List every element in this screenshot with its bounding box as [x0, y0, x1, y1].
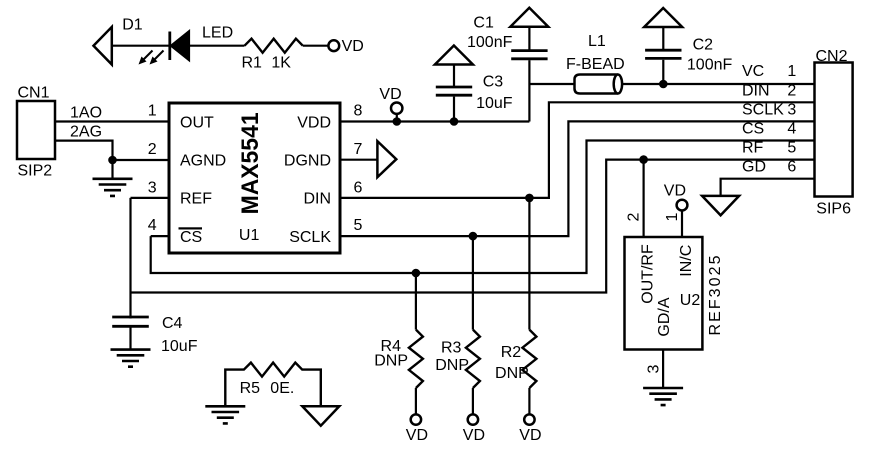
svg-text:SCLK: SCLK	[742, 101, 784, 118]
wire	[189, 45, 245, 47]
capacitor C1	[528, 60, 530, 121]
svg-text:1: 1	[148, 103, 157, 120]
terminal VD (R2)	[524, 414, 534, 424]
wire U2 pin2 to RF net	[642, 160, 644, 237]
svg-text:2: 2	[787, 82, 796, 99]
svg-text:AGND: AGND	[180, 153, 226, 170]
svg-text:C1: C1	[473, 14, 494, 31]
svg-text:6: 6	[787, 159, 796, 176]
wire DIN net	[340, 102, 815, 198]
svg-text:2: 2	[626, 212, 643, 221]
svg-text:4: 4	[787, 121, 796, 138]
svg-text:CN1: CN1	[18, 85, 50, 102]
svg-text:10uF: 10uF	[161, 338, 198, 355]
wire REF run	[131, 160, 815, 293]
resistor R3 (DNP)	[472, 236, 474, 330]
svg-text:VD: VD	[342, 38, 364, 55]
svg-text:SIP6: SIP6	[816, 201, 851, 218]
capacitor C2	[662, 60, 664, 84]
svg-text:100nF: 100nF	[687, 57, 733, 74]
svg-text:MAX5541: MAX5541	[237, 112, 264, 214]
resistor R5	[225, 363, 320, 407]
svg-text:OUT/RF: OUT/RF	[640, 244, 657, 304]
svg-text:GD: GD	[742, 159, 766, 176]
wire	[303, 45, 329, 47]
junction	[469, 232, 478, 241]
ground (R5 left)	[205, 406, 245, 423]
svg-text:VD: VD	[664, 183, 686, 200]
terminal VD (R1)	[328, 40, 339, 51]
connector CN2	[815, 63, 853, 197]
resistor R1	[245, 39, 303, 53]
svg-text:REF3025: REF3025	[707, 255, 724, 335]
svg-text:RF: RF	[742, 140, 764, 157]
svg-text:1: 1	[787, 63, 796, 80]
svg-text:VD: VD	[463, 427, 485, 444]
IC U2 REF3025	[625, 237, 703, 350]
ground DGND arrow (pin7, right-pointing)	[377, 141, 396, 177]
svg-text:D1: D1	[122, 17, 143, 34]
wire	[112, 45, 169, 47]
wire 1AO	[55, 120, 169, 122]
svg-text:0E.: 0E.	[270, 380, 294, 397]
wire VDD/VD net	[340, 120, 529, 122]
svg-text:4: 4	[148, 217, 157, 234]
svg-text:GD/A: GD/A	[656, 297, 673, 336]
svg-text:VD: VD	[406, 427, 428, 444]
svg-text:R3: R3	[441, 339, 462, 356]
svg-text:SIP2: SIP2	[18, 163, 53, 180]
svg-text:5: 5	[787, 140, 796, 157]
svg-text:2: 2	[148, 141, 157, 158]
svg-text:1: 1	[664, 212, 681, 221]
svg-text:DNP: DNP	[435, 357, 469, 374]
svg-text:8: 8	[353, 103, 362, 120]
supply VC symbol (C2)	[644, 8, 682, 27]
svg-text:LED: LED	[202, 25, 233, 42]
svg-text:U2: U2	[680, 292, 701, 309]
wire pin3 REF stub	[131, 197, 170, 199]
svg-text:REF: REF	[180, 191, 212, 208]
svg-text:3: 3	[646, 365, 663, 374]
junction	[639, 155, 648, 164]
supply VC symbol (C3)	[435, 46, 473, 65]
wire pin7 DGND	[340, 159, 377, 161]
wire pin4 CS stub	[151, 235, 169, 237]
svg-text:VD: VD	[519, 427, 541, 444]
svg-text:R1: R1	[242, 55, 263, 72]
ground DGND arrow (CN2 GD, down-pointing)	[702, 196, 739, 215]
diode D1 LED	[139, 31, 190, 64]
wire REF vertical	[129, 198, 131, 319]
svg-text:3: 3	[148, 180, 157, 197]
svg-text:VDD: VDD	[297, 114, 331, 131]
svg-text:CN2: CN2	[816, 48, 848, 65]
junction	[393, 117, 402, 126]
junction	[412, 269, 421, 278]
svg-text:R2: R2	[501, 344, 522, 361]
svg-text:DNP: DNP	[374, 352, 408, 369]
svg-text:DIN: DIN	[742, 82, 770, 99]
connector CN1	[17, 101, 55, 159]
svg-text:R5: R5	[240, 380, 261, 397]
junction	[108, 156, 117, 165]
ferrite bead L1	[575, 75, 618, 94]
svg-text:1K: 1K	[271, 55, 291, 72]
svg-text:2AG: 2AG	[70, 123, 102, 140]
wire U2 pin3	[662, 350, 664, 389]
svg-text:OUT: OUT	[180, 114, 214, 131]
svg-text:6: 6	[353, 180, 362, 197]
wire	[111, 160, 113, 179]
svg-text:3: 3	[787, 101, 796, 118]
capacitor C4	[112, 316, 149, 319]
ground (under U2)	[643, 388, 683, 405]
svg-text:C2: C2	[693, 37, 714, 54]
resistor R4 (DNP)	[415, 273, 417, 330]
svg-text:100nF: 100nF	[467, 34, 513, 51]
junction	[659, 80, 668, 89]
svg-text:7: 7	[353, 141, 362, 158]
svg-text:5: 5	[353, 217, 362, 234]
ground (under C4)	[111, 350, 151, 367]
svg-text:L1: L1	[588, 33, 606, 50]
capacitor C3	[453, 97, 455, 122]
svg-text:IN/C: IN/C	[678, 245, 695, 277]
junction	[450, 117, 459, 126]
wire SCLK net	[340, 121, 815, 236]
resistor R2 (DNP)	[528, 198, 530, 330]
svg-text:CS: CS	[180, 229, 202, 246]
svg-text:DGND: DGND	[284, 153, 331, 170]
terminal VD (R3)	[468, 414, 478, 424]
svg-text:10uF: 10uF	[476, 95, 513, 112]
svg-text:DNP: DNP	[495, 365, 529, 382]
svg-text:C4: C4	[162, 315, 183, 332]
wire L1 to CN2 VC	[622, 83, 814, 85]
svg-text:VC: VC	[742, 63, 764, 80]
wire GD net	[721, 179, 815, 196]
svg-text:U1: U1	[239, 227, 260, 244]
svg-text:C3: C3	[483, 74, 504, 91]
terminal VD (R4)	[411, 414, 421, 424]
terminal VD (pin8)	[396, 113, 398, 122]
svg-text:DIN: DIN	[303, 191, 331, 208]
IC U1 MAX5541	[169, 103, 340, 253]
wire CS run	[151, 141, 815, 274]
svg-text:F-BEAD: F-BEAD	[566, 56, 625, 73]
ground D1 arrow (left-pointing open triangle)	[94, 27, 112, 65]
supply VC symbol (C1)	[510, 8, 548, 27]
svg-text:CS: CS	[742, 121, 764, 138]
wire VC to L1	[529, 83, 574, 85]
junction	[525, 194, 534, 203]
ground (AGND under CN1)	[93, 179, 133, 196]
ground DGND arrow (R5 right, down-pointing)	[302, 406, 339, 425]
svg-text:SCLK: SCLK	[289, 229, 331, 246]
svg-text:1AO: 1AO	[70, 105, 102, 122]
terminal VD (U2 pin1)	[677, 200, 688, 211]
wire U2 pin1	[681, 211, 683, 238]
svg-text:VD: VD	[379, 86, 401, 103]
wire 2AG	[55, 141, 169, 160]
